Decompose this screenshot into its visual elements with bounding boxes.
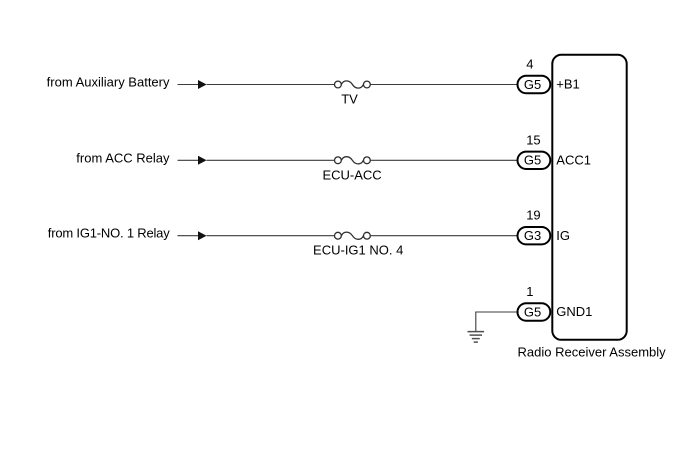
fuse ECU-ACC — [335, 157, 371, 164]
svg-text:G5: G5 — [524, 304, 541, 319]
wire: connector pin G5 (pin 1) to ground — [476, 312, 517, 332]
svg-text:Radio Receiver Assembly: Radio Receiver Assembly — [518, 345, 667, 360]
svg-text:from IG1-NO. 1 Relay: from IG1-NO. 1 Relay — [48, 226, 170, 241]
svg-text:+B1: +B1 — [556, 77, 580, 92]
ground — [468, 332, 485, 343]
svg-text:19: 19 — [526, 208, 540, 223]
svg-text:ECU-IG1 NO. 4: ECU-IG1 NO. 4 — [313, 243, 403, 258]
Radio Receiver Assembly box — [552, 55, 626, 340]
svg-text:4: 4 — [526, 57, 533, 72]
svg-text:G3: G3 — [524, 228, 541, 243]
svg-text:15: 15 — [526, 132, 540, 147]
svg-text:GND1: GND1 — [556, 304, 592, 319]
svg-text:ECU-ACC: ECU-ACC — [322, 167, 381, 182]
connector pin G5 (pin 15) — [518, 152, 551, 169]
wire: fuse TV to connector pin G5 — [370, 84, 517, 86]
connector pin G5 (pin 1) — [518, 303, 551, 320]
svg-text:1: 1 — [526, 284, 533, 299]
wire: fuse ECU-ACC to connector pin G5 — [370, 159, 517, 161]
svg-text:ACC1: ACC1 — [556, 152, 591, 167]
fuse ECU-IG1 NO. 4 — [335, 232, 371, 239]
wire: IG1 relay feed with arrow into fuse ECU-IG1 NO. 4 — [178, 231, 335, 240]
svg-text:G5: G5 — [524, 77, 541, 92]
fuse TV — [335, 81, 371, 88]
connector pin G3 (pin 19) — [518, 227, 551, 244]
wire: fuse ECU-IG1 NO. 4 to connector pin G3 — [370, 235, 517, 237]
wire: battery feed with arrow into fuse TV — [178, 80, 335, 89]
svg-text:IG: IG — [556, 228, 570, 243]
svg-text:from Auxiliary Battery: from Auxiliary Battery — [47, 75, 170, 90]
svg-text:from ACC Relay: from ACC Relay — [76, 150, 170, 165]
wire: ACC relay feed with arrow into fuse ECU-ACC — [178, 156, 335, 165]
connector pin G5 (pin 4) — [518, 76, 551, 93]
svg-text:TV: TV — [341, 92, 358, 107]
svg-text:G5: G5 — [524, 153, 541, 168]
